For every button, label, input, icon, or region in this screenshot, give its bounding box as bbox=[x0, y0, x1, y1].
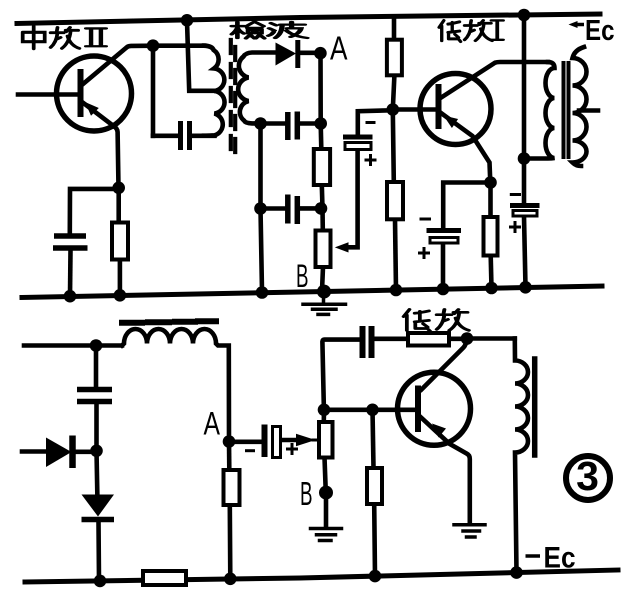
svg-text:B: B bbox=[300, 475, 313, 512]
svg-text:3: 3 bbox=[576, 453, 599, 499]
svg-text:A: A bbox=[330, 30, 348, 67]
svg-text:Ec: Ec bbox=[544, 542, 576, 575]
svg-text:A: A bbox=[204, 406, 221, 442]
svg-text:Ec: Ec bbox=[585, 15, 615, 47]
svg-text:B: B bbox=[296, 258, 309, 294]
